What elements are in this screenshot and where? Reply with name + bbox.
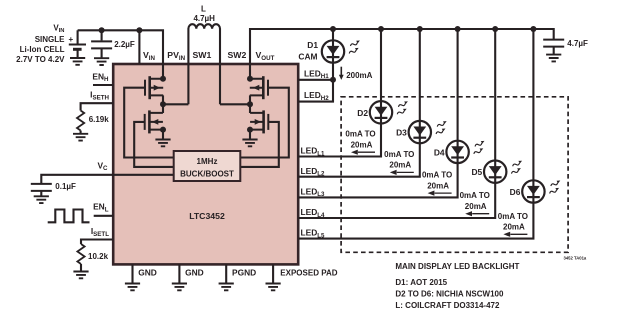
svg-text:ENH: ENH: [92, 71, 109, 83]
svg-text:VOUT: VOUT: [256, 50, 275, 62]
svg-text:L: COILCRAFT DO3314-472: L: COILCRAFT DO3314-472: [395, 301, 500, 310]
svg-text:10.2k: 10.2k: [88, 252, 109, 261]
svg-text:VC: VC: [97, 160, 108, 172]
svg-text:0mA TO: 0mA TO: [422, 171, 452, 180]
svg-text:20mA: 20mA: [503, 223, 525, 232]
svg-text:D1: AOT 2015: D1: AOT 2015: [395, 278, 447, 287]
svg-text:3452 TA01a: 3452 TA01a: [564, 255, 587, 260]
svg-text:BUCK/BOOST: BUCK/BOOST: [180, 170, 234, 179]
svg-text:20mA: 20mA: [427, 181, 449, 190]
svg-text:MAIN DISPLAY LED BACKLIGHT: MAIN DISPLAY LED BACKLIGHT: [395, 262, 519, 271]
svg-text:LTC3452: LTC3452: [189, 211, 225, 221]
svg-text:D4: D4: [434, 147, 445, 157]
svg-text:SW2: SW2: [228, 50, 247, 60]
svg-text:Li-Ion CELL: Li-Ion CELL: [20, 45, 65, 54]
svg-text:1MHz: 1MHz: [197, 157, 218, 166]
svg-text:GND: GND: [185, 267, 204, 277]
svg-text:D5: D5: [471, 167, 482, 177]
svg-text:4.7µH: 4.7µH: [193, 14, 215, 23]
svg-text:L: L: [201, 5, 206, 14]
svg-text:2.7V TO 4.2V: 2.7V TO 4.2V: [16, 55, 65, 64]
svg-text:EXPOSED PAD: EXPOSED PAD: [280, 268, 337, 277]
svg-text:LEDH2: LEDH2: [304, 90, 329, 102]
svg-text:D2: D2: [357, 108, 368, 118]
svg-text:0.1µF: 0.1µF: [55, 182, 76, 191]
svg-text:GND: GND: [138, 267, 157, 277]
svg-text:6.19k: 6.19k: [89, 115, 110, 124]
svg-text:ISETL: ISETL: [91, 226, 109, 238]
svg-text:2.2µF: 2.2µF: [114, 40, 135, 49]
svg-text:0mA TO: 0mA TO: [460, 191, 490, 200]
svg-text:LEDH1: LEDH1: [304, 68, 329, 80]
svg-text:VIN: VIN: [53, 24, 64, 35]
svg-text:SW1: SW1: [193, 50, 212, 60]
svg-text:0mA TO: 0mA TO: [384, 150, 414, 159]
svg-text:D6: D6: [510, 187, 521, 197]
svg-text:CAM: CAM: [298, 51, 317, 61]
svg-text:4.7µF: 4.7µF: [567, 39, 588, 48]
svg-text:PGND: PGND: [232, 267, 256, 277]
svg-text:SINGLE: SINGLE: [35, 35, 65, 44]
svg-text:0mA TO: 0mA TO: [498, 212, 528, 221]
svg-text:ENL: ENL: [93, 202, 109, 214]
svg-text:20mA: 20mA: [351, 141, 373, 150]
svg-text:D2 TO D6: NICHIA NSCW100: D2 TO D6: NICHIA NSCW100: [395, 290, 504, 299]
svg-text:20mA: 20mA: [465, 202, 487, 211]
svg-text:+: +: [69, 35, 74, 44]
svg-text:PVIN: PVIN: [167, 50, 185, 62]
svg-text:VIN: VIN: [143, 50, 156, 62]
svg-text:ISETH: ISETH: [90, 90, 109, 102]
svg-text:D1: D1: [307, 40, 318, 50]
svg-text:200mA: 200mA: [346, 71, 372, 80]
svg-text:20mA: 20mA: [389, 161, 411, 170]
svg-text:D3: D3: [396, 128, 407, 138]
svg-text:0mA TO: 0mA TO: [345, 130, 375, 139]
